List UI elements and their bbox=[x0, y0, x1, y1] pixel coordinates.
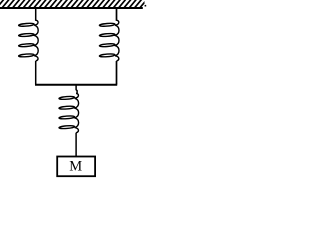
spring S3 (middle) bbox=[59, 93, 79, 132]
mass box bbox=[57, 157, 95, 177]
ceiling hatch dot bbox=[145, 5, 147, 7]
bar joining springs bbox=[35, 84, 117, 86]
ceiling hatching bbox=[0, 0, 147, 8]
wire: left spring to bar bbox=[35, 61, 37, 85]
svg-text:M: M bbox=[69, 159, 82, 175]
spring S2 (right) bbox=[99, 20, 119, 61]
wire: right spring to bar bbox=[116, 61, 118, 85]
spring S1 (left) bbox=[19, 20, 39, 61]
wire: left stem bbox=[35, 8, 37, 21]
wire: middle spring to mass bbox=[75, 133, 77, 156]
wire: right stem bbox=[116, 8, 118, 21]
wire: bar to middle spring bbox=[76, 85, 77, 94]
ceiling line bbox=[0, 7, 143, 9]
